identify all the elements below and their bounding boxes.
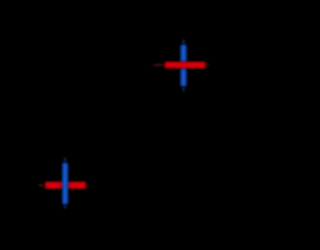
candle B blue body <box>61 162 69 206</box>
candle A red wick (horizontal) <box>154 64 209 66</box>
candle B red body <box>44 181 87 191</box>
candle B red wick (horizontal) <box>39 184 89 186</box>
candle A blue body <box>179 44 188 88</box>
candle A red body <box>164 61 207 70</box>
candle B blue wick (vertical) <box>64 158 66 209</box>
candle A blue wick (vertical) <box>183 40 185 92</box>
